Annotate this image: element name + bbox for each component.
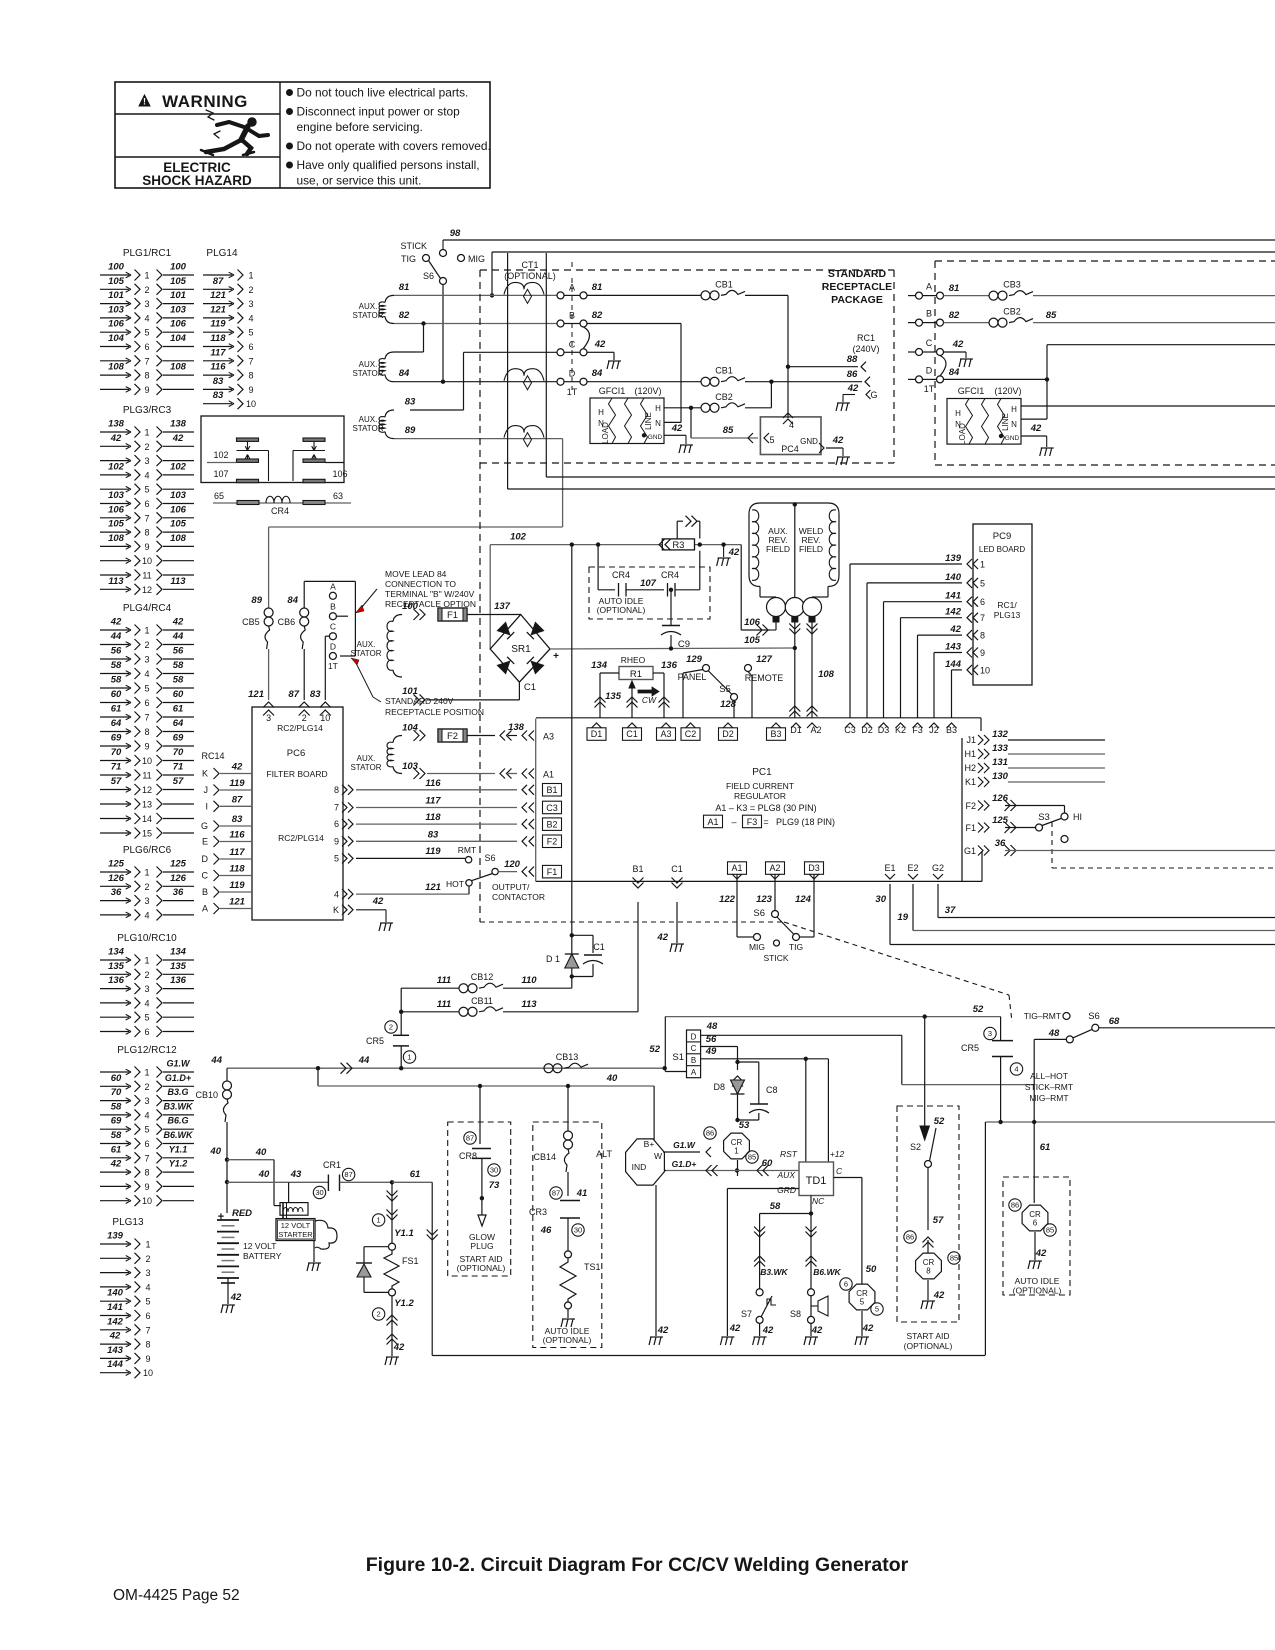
svg-text:121: 121 — [229, 897, 245, 908]
svg-text:RC14: RC14 — [201, 751, 224, 761]
svg-text:TIG–RMT: TIG–RMT — [1024, 1011, 1061, 1021]
svg-text:121: 121 — [210, 290, 226, 301]
svg-text:A: A — [926, 282, 932, 292]
svg-text:104: 104 — [170, 333, 187, 344]
svg-text:CR4: CR4 — [661, 570, 679, 580]
svg-text:42: 42 — [1030, 423, 1042, 434]
svg-text:PLG14: PLG14 — [206, 248, 238, 259]
svg-text:4: 4 — [144, 910, 149, 920]
svg-text:STATOR: STATOR — [352, 424, 383, 433]
svg-text:5: 5 — [875, 1305, 879, 1314]
svg-text:RECEPTACLE: RECEPTACLE — [822, 281, 892, 293]
svg-text:10: 10 — [143, 1368, 153, 1378]
svg-text:10: 10 — [142, 756, 152, 766]
svg-text:12 VOLT: 12 VOLT — [243, 1241, 276, 1251]
svg-text:TIG: TIG — [789, 942, 803, 952]
svg-text:(120V): (120V) — [994, 386, 1021, 396]
svg-text:Have only qualified persons in: Have only qualified persons install, — [297, 158, 480, 172]
svg-text:42: 42 — [110, 433, 122, 444]
svg-text:D2: D2 — [722, 729, 734, 739]
svg-text:3: 3 — [144, 984, 149, 994]
svg-text:STANDARD 240V: STANDARD 240V — [385, 696, 454, 706]
svg-text:136: 136 — [170, 975, 187, 986]
svg-text:87: 87 — [288, 689, 299, 700]
svg-text:4: 4 — [144, 998, 149, 1008]
svg-text:30: 30 — [315, 1188, 323, 1197]
svg-text:42: 42 — [952, 339, 964, 350]
svg-text:CR4: CR4 — [271, 506, 289, 516]
svg-text:53: 53 — [739, 1120, 750, 1131]
svg-text:J1: J1 — [966, 735, 976, 745]
svg-text:5: 5 — [980, 578, 985, 588]
svg-text:6: 6 — [248, 342, 253, 352]
svg-text:RHEO: RHEO — [621, 655, 646, 665]
svg-text:LOAD: LOAD — [958, 423, 967, 445]
svg-text:89: 89 — [251, 595, 262, 606]
svg-text:50: 50 — [866, 1264, 877, 1275]
svg-text:PLG1/RC1: PLG1/RC1 — [123, 248, 172, 259]
svg-text:7: 7 — [144, 356, 149, 366]
svg-text:134: 134 — [591, 660, 608, 671]
svg-text:C1: C1 — [524, 682, 536, 693]
svg-text:108: 108 — [170, 362, 187, 373]
svg-text:60: 60 — [111, 1073, 122, 1084]
svg-text:LINE: LINE — [644, 412, 653, 430]
svg-text:C3: C3 — [546, 803, 558, 813]
svg-text:40: 40 — [209, 1146, 221, 1157]
svg-text:H: H — [655, 404, 661, 413]
svg-text:125: 125 — [170, 859, 187, 870]
svg-text:87: 87 — [213, 276, 224, 287]
svg-text:B: B — [926, 309, 932, 319]
svg-text:73: 73 — [489, 1180, 500, 1191]
svg-text:6: 6 — [334, 819, 339, 829]
svg-text:6: 6 — [144, 499, 149, 509]
svg-text:30: 30 — [875, 894, 886, 905]
svg-text:AUX.: AUX. — [357, 640, 376, 649]
svg-text:83: 83 — [310, 689, 321, 700]
svg-text:10: 10 — [980, 665, 990, 675]
svg-text:137: 137 — [494, 601, 511, 612]
svg-text:H2: H2 — [964, 763, 976, 773]
svg-text:36: 36 — [995, 838, 1006, 849]
svg-text:139: 139 — [107, 1231, 124, 1242]
svg-text:42: 42 — [811, 1325, 823, 1336]
svg-text:PC9: PC9 — [993, 531, 1011, 542]
svg-text:12 VOLT: 12 VOLT — [281, 1221, 311, 1230]
svg-text:C1: C1 — [626, 729, 638, 739]
svg-text:6: 6 — [144, 1027, 149, 1037]
svg-text:–: – — [731, 817, 736, 827]
svg-text:134: 134 — [170, 947, 187, 958]
svg-text:100: 100 — [170, 262, 187, 273]
svg-text:42: 42 — [657, 1325, 669, 1336]
svg-text:CB14: CB14 — [533, 1152, 556, 1162]
svg-text:D1: D1 — [591, 729, 603, 739]
svg-text:126: 126 — [170, 873, 187, 884]
svg-text:42: 42 — [231, 762, 243, 773]
svg-text:8: 8 — [144, 727, 149, 737]
svg-text:7: 7 — [334, 803, 339, 813]
svg-text:44: 44 — [358, 1055, 370, 1066]
svg-text:AUX.: AUX. — [359, 415, 378, 424]
svg-text:LOAD: LOAD — [601, 422, 610, 444]
svg-text:8: 8 — [144, 1168, 149, 1178]
svg-text:1: 1 — [144, 1068, 149, 1078]
svg-text:84: 84 — [399, 368, 410, 379]
svg-text:42: 42 — [172, 617, 184, 628]
svg-text:N: N — [655, 419, 661, 428]
svg-text:G1: G1 — [964, 846, 976, 856]
svg-text:101: 101 — [170, 290, 186, 301]
svg-text:CB12: CB12 — [471, 972, 494, 982]
svg-text:10: 10 — [142, 1196, 152, 1206]
svg-text:C8: C8 — [766, 1085, 778, 1095]
svg-text:RC1: RC1 — [857, 333, 875, 343]
svg-text:105: 105 — [170, 519, 187, 530]
svg-text:H: H — [955, 409, 961, 418]
svg-text:S6: S6 — [753, 908, 765, 919]
svg-text:107: 107 — [213, 469, 228, 479]
svg-text:144: 144 — [945, 659, 962, 670]
svg-text:60: 60 — [111, 689, 122, 700]
svg-text:49: 49 — [705, 1046, 717, 1057]
svg-text:G1.W: G1.W — [166, 1059, 191, 1069]
svg-text:5: 5 — [145, 1297, 150, 1307]
svg-text:B6.WK: B6.WK — [813, 1267, 841, 1277]
svg-text:111: 111 — [437, 975, 451, 986]
svg-text:S6: S6 — [1088, 1011, 1100, 1022]
svg-text:44: 44 — [172, 631, 184, 642]
svg-text:GRD: GRD — [777, 1185, 796, 1195]
svg-text:H1: H1 — [964, 749, 976, 759]
svg-text:TERMINAL "B" W/240V: TERMINAL "B" W/240V — [385, 589, 475, 599]
svg-text:4: 4 — [248, 313, 253, 323]
svg-text:FIELD: FIELD — [766, 544, 790, 554]
svg-text:140: 140 — [945, 572, 962, 583]
svg-text:D: D — [330, 642, 336, 652]
svg-text:61: 61 — [173, 704, 184, 715]
svg-text:5: 5 — [144, 1125, 149, 1135]
svg-text:116: 116 — [210, 362, 226, 373]
svg-text:A: A — [202, 904, 208, 914]
svg-text:85: 85 — [950, 1254, 958, 1263]
svg-text:MIG: MIG — [468, 254, 485, 264]
svg-text:F2: F2 — [965, 801, 976, 811]
svg-text:42: 42 — [728, 547, 740, 558]
svg-text:42: 42 — [832, 435, 844, 446]
svg-text:7: 7 — [980, 613, 985, 623]
svg-text:(120V): (120V) — [634, 386, 661, 396]
svg-text:D: D — [691, 1032, 697, 1041]
svg-text:A1: A1 — [731, 863, 742, 873]
svg-text:61: 61 — [111, 1144, 122, 1155]
svg-text:100: 100 — [108, 262, 125, 273]
svg-text:105: 105 — [108, 276, 125, 287]
svg-text:STICK: STICK — [400, 241, 427, 251]
svg-text:117: 117 — [229, 847, 245, 858]
svg-text:AUX: AUX — [777, 1170, 796, 1180]
svg-text:GFCI1: GFCI1 — [599, 386, 626, 396]
svg-text:MOVE LEAD 84: MOVE LEAD 84 — [385, 569, 447, 579]
svg-text:B3.WK: B3.WK — [164, 1101, 195, 1111]
svg-text:57: 57 — [933, 1215, 944, 1226]
svg-text:83: 83 — [232, 814, 243, 825]
svg-text:S7: S7 — [741, 1309, 752, 1319]
svg-text:use, or service this unit.: use, or service this unit. — [297, 174, 422, 188]
svg-text:88: 88 — [847, 354, 858, 365]
svg-text:START AID: START AID — [907, 1331, 950, 1341]
svg-text:C2: C2 — [685, 729, 697, 739]
svg-text:10: 10 — [320, 713, 330, 723]
svg-text:F2: F2 — [547, 837, 558, 847]
svg-text:PLG9 (18 PIN): PLG9 (18 PIN) — [776, 817, 835, 827]
svg-text:65: 65 — [214, 491, 224, 501]
svg-text:5: 5 — [144, 328, 149, 338]
svg-text:LED BOARD: LED BOARD — [979, 545, 1025, 554]
svg-text:STATOR: STATOR — [352, 311, 383, 320]
svg-text:82: 82 — [949, 310, 960, 321]
svg-text:1T: 1T — [328, 661, 338, 671]
svg-text:9: 9 — [980, 648, 985, 658]
svg-text:HI: HI — [1073, 812, 1082, 822]
svg-text:1: 1 — [407, 1053, 411, 1062]
svg-text:K1: K1 — [965, 777, 976, 787]
svg-text:11: 11 — [142, 571, 151, 581]
svg-text:9: 9 — [144, 385, 149, 395]
svg-text:12: 12 — [142, 585, 152, 595]
svg-text:81: 81 — [399, 282, 410, 293]
svg-text:81: 81 — [592, 282, 603, 293]
svg-text:(OPTIONAL): (OPTIONAL) — [1013, 1286, 1062, 1296]
svg-text:42: 42 — [230, 1292, 242, 1303]
svg-text:83: 83 — [428, 829, 439, 840]
svg-text:HOT: HOT — [446, 879, 464, 889]
svg-text:98: 98 — [450, 228, 461, 239]
svg-text:1: 1 — [144, 271, 149, 281]
svg-text:9: 9 — [144, 542, 149, 552]
svg-text:86: 86 — [906, 1233, 914, 1242]
svg-text:RC2/PLG14: RC2/PLG14 — [277, 723, 323, 733]
svg-text:A: A — [691, 1068, 697, 1077]
svg-text:6: 6 — [1033, 1219, 1038, 1228]
svg-text:87: 87 — [466, 1134, 474, 1143]
svg-text:124: 124 — [795, 894, 812, 905]
svg-text:56: 56 — [173, 646, 184, 657]
svg-text:CW: CW — [642, 695, 657, 705]
svg-text:1: 1 — [145, 1240, 150, 1250]
svg-text:1: 1 — [144, 428, 149, 438]
svg-text:CB6: CB6 — [278, 617, 296, 627]
svg-text:1: 1 — [248, 271, 253, 281]
svg-text:58: 58 — [173, 675, 184, 686]
svg-text:(240V): (240V) — [852, 344, 879, 354]
svg-text:9: 9 — [144, 742, 149, 752]
svg-text:(OPTIONAL): (OPTIONAL) — [543, 1335, 592, 1345]
svg-text:136: 136 — [108, 975, 125, 986]
svg-text:43: 43 — [290, 1169, 302, 1180]
svg-text:108: 108 — [108, 533, 125, 544]
svg-text:3: 3 — [144, 896, 149, 906]
svg-text:Figure 10-2. Circuit Diagram F: Figure 10-2. Circuit Diagram For CC/CV W… — [366, 1554, 909, 1576]
svg-text:A1: A1 — [543, 770, 554, 780]
svg-text:CT1: CT1 — [521, 260, 538, 270]
svg-text:119: 119 — [210, 319, 226, 330]
svg-text:8: 8 — [980, 631, 985, 641]
svg-text:5: 5 — [248, 328, 253, 338]
svg-text:E1: E1 — [884, 863, 895, 873]
svg-text:2: 2 — [302, 713, 307, 723]
svg-text:+: + — [218, 1211, 224, 1223]
svg-text:6: 6 — [145, 1311, 150, 1321]
svg-text:B: B — [330, 602, 336, 612]
svg-text:63: 63 — [333, 491, 343, 501]
svg-text:30: 30 — [574, 1226, 582, 1235]
svg-text:S1: S1 — [672, 1052, 684, 1063]
svg-text:FILTER BOARD: FILTER BOARD — [266, 769, 327, 779]
svg-text:2: 2 — [144, 1082, 149, 1092]
svg-text:42: 42 — [110, 617, 122, 628]
svg-text:87: 87 — [232, 794, 243, 805]
svg-text:1T: 1T — [924, 384, 935, 394]
svg-text:3: 3 — [144, 299, 149, 309]
svg-text:8: 8 — [144, 371, 149, 381]
svg-text:I: I — [205, 801, 208, 811]
svg-text:STANDARD: STANDARD — [828, 268, 887, 280]
svg-text:42: 42 — [393, 1342, 405, 1353]
svg-text:70: 70 — [111, 747, 122, 758]
svg-text:K: K — [333, 905, 339, 915]
svg-text:TD1: TD1 — [806, 1175, 827, 1187]
svg-text:F2: F2 — [447, 731, 458, 742]
svg-text:TS1: TS1 — [584, 1262, 601, 1272]
svg-text:113: 113 — [521, 999, 537, 1010]
svg-text:SR1: SR1 — [511, 644, 531, 655]
svg-text:2: 2 — [145, 1254, 150, 1264]
svg-text:5: 5 — [144, 684, 149, 694]
svg-text:119: 119 — [229, 880, 245, 891]
svg-text:R3: R3 — [672, 540, 684, 551]
svg-text:58: 58 — [770, 1201, 781, 1212]
svg-text:141: 141 — [945, 591, 961, 602]
svg-text:86: 86 — [1011, 1201, 1019, 1210]
svg-text:F3: F3 — [747, 817, 758, 827]
svg-text:6: 6 — [844, 1280, 848, 1289]
svg-text:CR5: CR5 — [961, 1043, 979, 1053]
svg-text:69: 69 — [173, 733, 184, 744]
svg-text:42: 42 — [847, 383, 859, 394]
svg-text:B3.WK: B3.WK — [760, 1267, 788, 1277]
svg-text:83: 83 — [405, 397, 416, 408]
svg-text:4: 4 — [789, 420, 794, 430]
svg-text:61: 61 — [111, 704, 122, 715]
svg-text:FS1: FS1 — [402, 1256, 419, 1266]
svg-text:A1 – K3 = PLG8 (30 PIN): A1 – K3 = PLG8 (30 PIN) — [715, 803, 816, 813]
svg-text:G: G — [870, 390, 877, 400]
svg-text:C: C — [836, 1166, 843, 1176]
svg-text:CR8: CR8 — [459, 1151, 477, 1161]
svg-text:61: 61 — [1040, 1142, 1051, 1153]
svg-text:58: 58 — [111, 660, 122, 671]
svg-text:CONTACTOR: CONTACTOR — [492, 892, 545, 902]
svg-text:113: 113 — [108, 576, 124, 587]
svg-text:PLUG: PLUG — [470, 1241, 493, 1251]
svg-text:5: 5 — [144, 485, 149, 495]
svg-text:B6.WK: B6.WK — [164, 1130, 195, 1140]
svg-text:130: 130 — [992, 771, 1009, 782]
svg-text:36: 36 — [111, 887, 122, 898]
svg-text:IND: IND — [632, 1162, 647, 1172]
svg-text:N: N — [1011, 420, 1017, 429]
svg-text:37: 37 — [945, 905, 956, 916]
svg-text:135: 135 — [605, 691, 622, 702]
svg-text:42: 42 — [1035, 1248, 1047, 1259]
svg-text:ALT: ALT — [596, 1149, 612, 1159]
svg-text:2: 2 — [248, 285, 253, 295]
svg-text:103: 103 — [170, 490, 187, 501]
svg-text:S2: S2 — [910, 1142, 921, 1152]
svg-text:58: 58 — [111, 675, 122, 686]
svg-text:3: 3 — [266, 713, 271, 723]
svg-text:5: 5 — [860, 1298, 865, 1307]
svg-text:1: 1 — [144, 956, 149, 966]
svg-text:D3: D3 — [808, 863, 820, 873]
svg-text:PLG12/RC12: PLG12/RC12 — [117, 1045, 177, 1056]
svg-text:105: 105 — [170, 276, 187, 287]
svg-text:40: 40 — [258, 1169, 270, 1180]
svg-text:134: 134 — [108, 947, 125, 958]
svg-text:A: A — [330, 581, 336, 591]
svg-text:52: 52 — [934, 1116, 945, 1127]
svg-text:J: J — [204, 785, 209, 795]
svg-text:133: 133 — [992, 743, 1009, 754]
svg-text:CONNECTION TO: CONNECTION TO — [385, 579, 456, 589]
svg-text:STARTER: STARTER — [278, 1230, 313, 1239]
svg-text:3: 3 — [988, 1029, 992, 1038]
svg-text:103: 103 — [170, 304, 187, 315]
svg-text:71: 71 — [173, 762, 184, 773]
svg-text:142: 142 — [107, 1316, 124, 1327]
svg-text:69: 69 — [111, 733, 122, 744]
svg-text:108: 108 — [108, 362, 125, 373]
svg-text:3: 3 — [144, 1096, 149, 1106]
svg-text:44: 44 — [110, 631, 122, 642]
svg-text:144: 144 — [107, 1359, 124, 1370]
svg-text:7: 7 — [144, 513, 149, 523]
svg-text:BATTERY: BATTERY — [243, 1251, 282, 1261]
svg-text:PC1: PC1 — [752, 767, 772, 778]
svg-text:9: 9 — [145, 1354, 150, 1364]
svg-text:G1.W: G1.W — [673, 1140, 696, 1150]
svg-text:!: ! — [143, 97, 146, 107]
svg-text:108: 108 — [818, 669, 835, 680]
svg-text:STICK–RMT: STICK–RMT — [1025, 1082, 1073, 1092]
svg-text:117: 117 — [210, 347, 226, 358]
svg-text:CR4: CR4 — [612, 570, 630, 580]
svg-text:MIG–RMT: MIG–RMT — [1029, 1093, 1068, 1103]
svg-text:OUTPUT/: OUTPUT/ — [492, 882, 530, 892]
svg-text:106: 106 — [332, 469, 347, 479]
svg-text:121: 121 — [248, 689, 264, 700]
svg-text:9: 9 — [334, 836, 339, 846]
svg-text:OM-4425 Page 52: OM-4425 Page 52 — [113, 1587, 240, 1604]
svg-text:8: 8 — [334, 785, 339, 795]
svg-text:70: 70 — [111, 1087, 122, 1098]
svg-text:Disconnect input power or stop: Disconnect input power or stop — [297, 105, 461, 119]
svg-text:58: 58 — [173, 660, 184, 671]
svg-text:PLG13: PLG13 — [994, 610, 1021, 620]
svg-text:B6.G: B6.G — [167, 1116, 188, 1126]
